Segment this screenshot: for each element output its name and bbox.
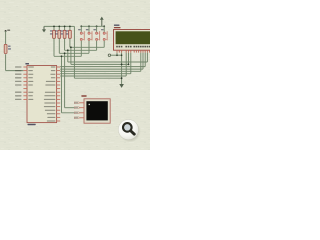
wire R4 top stub <box>64 26 66 30</box>
label SW2 <box>86 29 89 30</box>
wire net3 horizontal <box>65 49 97 51</box>
magnifier watermark button <box>118 120 138 140</box>
wire R2 top stub <box>53 26 55 30</box>
value R5 <box>66 33 69 34</box>
junction rail-R4 <box>64 26 66 28</box>
junction net4-drop2 <box>70 46 72 48</box>
terminal cursor <box>89 104 90 105</box>
lcd pins <box>117 50 150 52</box>
wire ground net vertical <box>73 26 75 78</box>
wire R5 bottom stub <box>69 38 71 47</box>
junction rail-button3 <box>96 25 98 27</box>
net labels left of U1 <box>15 66 22 100</box>
magnifier glass <box>123 123 132 132</box>
wire R2 bottom stub <box>53 38 55 56</box>
wire riser RS <box>125 53 127 76</box>
label PIC16F877A <box>28 124 36 125</box>
push button SW1 <box>80 32 82 34</box>
power +5V symbol <box>101 19 103 26</box>
terminal pins <box>74 102 84 119</box>
wire button2 top stub <box>88 26 90 32</box>
label LCD1 <box>114 25 120 26</box>
wire R3 top stub <box>58 26 60 30</box>
label SW4 <box>101 29 104 30</box>
mcu U1 body <box>27 66 57 123</box>
wire riser D5 <box>142 53 144 70</box>
label R5 <box>66 30 68 31</box>
lcd pin name text row <box>116 46 150 48</box>
wire button1 top stub <box>80 26 82 32</box>
wire riser D7 <box>146 53 148 62</box>
wire bus row5 (D4) <box>60 70 141 72</box>
junction net3-drop1 <box>67 49 69 51</box>
lcd LM016L body <box>114 30 153 51</box>
wire R3 bottom stub <box>58 38 60 53</box>
wire RW stub down <box>128 53 130 65</box>
wire net4 horizontal <box>70 46 104 48</box>
wire reset bottom <box>5 54 7 70</box>
wire drop to bus row2 <box>70 47 72 64</box>
junction rail-R3 <box>58 26 60 28</box>
label U1 <box>25 63 29 65</box>
wire rail extension right <box>70 25 75 27</box>
mcu U1 pins right <box>57 67 61 121</box>
wire R4 bottom stub <box>64 38 66 50</box>
resistor R1 body <box>4 44 7 53</box>
label terminal VT1 <box>81 95 86 97</box>
lcd screen <box>116 31 152 44</box>
label SW1 <box>78 29 81 30</box>
wire riser D4 <box>140 53 142 72</box>
resistor R4 body <box>63 30 66 38</box>
wire net1 horizontal <box>54 55 81 57</box>
junction rail-button4 <box>103 25 105 27</box>
label R2 <box>50 30 52 31</box>
wire reset top <box>5 31 7 44</box>
wire TX vertical <box>61 56 63 113</box>
junction rail-R5 <box>69 26 71 28</box>
terminal screen <box>86 101 107 120</box>
virtual terminal body <box>84 99 110 123</box>
value R3 <box>55 33 58 34</box>
wire bus row1 (D7) <box>68 61 148 63</box>
ground symbol (under LCD) <box>119 84 124 88</box>
wire button3 bottom stub <box>96 41 98 51</box>
wire VEE to ground <box>121 53 123 85</box>
wire bus row8 (ground) <box>74 77 121 79</box>
junction rail-R2 <box>53 26 55 28</box>
value R2 <box>50 33 53 34</box>
mcu U1 right pin names <box>44 67 56 122</box>
resistor R5 body <box>69 30 72 38</box>
junction gnd-row2 cross <box>121 64 123 66</box>
resistor R2 body <box>53 30 56 38</box>
junction rail-button1 <box>80 25 82 27</box>
wire button1 bottom stub <box>80 41 82 57</box>
wire node to VEE <box>111 54 122 56</box>
wire button4 top stub <box>103 26 105 32</box>
push button SW2 <box>88 32 90 34</box>
wire resistor top rail <box>44 25 70 27</box>
wire riser E <box>130 53 132 74</box>
wire TX horizontal <box>62 112 80 114</box>
wire riser D6 <box>144 53 146 67</box>
wire RX vertical <box>64 53 66 107</box>
value R4 <box>61 33 64 34</box>
wire net2 horizontal <box>59 52 89 54</box>
magnifier watermark shadow <box>119 120 141 142</box>
junction VEE-node wire <box>121 54 123 56</box>
junction RW-row2 <box>128 64 130 66</box>
push button SW4 <box>103 32 105 34</box>
wire button3 top stub <box>96 26 98 32</box>
label R3 <box>55 30 57 31</box>
wire VSS stub down <box>116 53 118 56</box>
mcu U1 pins left <box>23 67 27 99</box>
resistor R3 body <box>58 30 61 38</box>
node circle (LCD contrast net) <box>108 54 110 56</box>
wire bus row3 (D6) <box>60 66 145 68</box>
wire bus row4 (D5) <box>60 68 143 70</box>
wire bus row2 (gnd/RW) <box>71 63 129 65</box>
junction net1-TX <box>61 55 63 57</box>
wire drop to bus row1 <box>67 50 69 62</box>
push button SW3 <box>96 32 98 34</box>
lcd pin numbers <box>117 51 151 52</box>
wire bus row7 (RS) <box>60 75 126 77</box>
label SW3 <box>93 29 96 30</box>
label R4 <box>61 30 63 31</box>
wire button4 bottom stub <box>103 41 105 48</box>
wire bus row6 (E) <box>60 73 131 75</box>
wire reset to MCLR pin <box>6 70 24 72</box>
power terminal node <box>5 30 7 32</box>
wire button top rail <box>81 25 104 27</box>
mcu U1 left pin names <box>28 67 34 100</box>
value 10k <box>8 48 11 49</box>
junction gnd feed <box>121 77 123 79</box>
label R1 <box>8 46 11 47</box>
junction net2-RX <box>64 52 66 54</box>
label LM016L <box>114 27 121 28</box>
junction rail-button2 <box>88 25 90 27</box>
power label text <box>7 30 10 31</box>
wire R5 top stub <box>69 26 71 30</box>
wire RX horizontal <box>65 107 80 109</box>
ground symbol (resistor rail) <box>43 26 45 29</box>
wire button2 bottom stub <box>88 41 90 54</box>
